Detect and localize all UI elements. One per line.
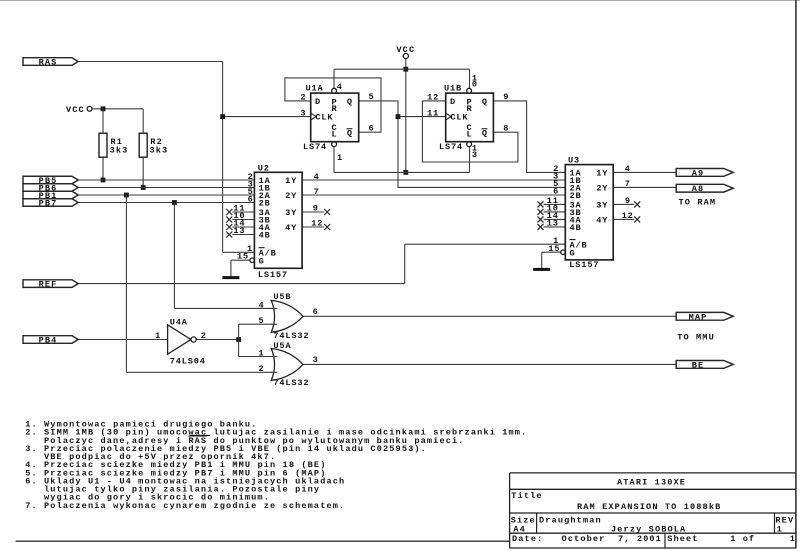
svg-text:1: 1 — [790, 534, 796, 544]
svg-text:A9: A9 — [692, 168, 705, 178]
svg-text:RAM EXPANSION TO 1088kB: RAM EXPANSION TO 1088kB — [577, 502, 721, 512]
svg-text:7: 7 — [625, 179, 631, 189]
svg-text:74LS04: 74LS04 — [170, 357, 206, 367]
svg-text:3: 3 — [313, 355, 319, 365]
svg-text:TO MMU: TO MMU — [677, 333, 715, 343]
svg-text:2: 2 — [258, 364, 264, 374]
svg-text:D: D — [315, 97, 321, 107]
svg-text:PB7: PB7 — [39, 198, 58, 208]
svg-text:A4: A4 — [513, 524, 526, 534]
svg-text:2Y: 2Y — [285, 191, 297, 201]
svg-text:74LS32: 74LS32 — [273, 378, 309, 388]
svg-text:CLK: CLK — [450, 113, 468, 123]
svg-text:11: 11 — [427, 108, 439, 118]
svg-text:9: 9 — [503, 92, 509, 102]
svg-text:3k3: 3k3 — [150, 146, 169, 156]
svg-text:U4A: U4A — [170, 317, 188, 327]
svg-text:U1B: U1B — [444, 83, 462, 93]
svg-text:2Y: 2Y — [596, 184, 608, 194]
svg-text:1: 1 — [155, 331, 161, 341]
svg-text:ATARI 130XE: ATARI 130XE — [617, 478, 686, 488]
svg-text:October 7, 2001: October 7, 2001 — [562, 534, 662, 544]
svg-text:13: 13 — [233, 226, 245, 236]
svg-text:U3: U3 — [568, 156, 580, 166]
svg-text:9: 9 — [313, 204, 319, 214]
svg-text:Q: Q — [347, 129, 353, 139]
svg-text:3Y: 3Y — [596, 201, 608, 211]
svg-text:G: G — [259, 256, 265, 266]
svg-text:2: 2 — [201, 331, 207, 341]
svg-text:VCC: VCC — [66, 105, 85, 115]
svg-text:A8: A8 — [692, 184, 705, 194]
svg-text:TO RAM: TO RAM — [679, 197, 717, 207]
svg-text:5: 5 — [258, 316, 264, 326]
svg-text:2B: 2B — [259, 199, 271, 209]
svg-text:3: 3 — [300, 108, 306, 118]
svg-text:4B: 4B — [259, 231, 271, 241]
svg-text:U1A: U1A — [306, 83, 324, 93]
svg-text:12: 12 — [427, 93, 439, 103]
svg-text:3Y: 3Y — [285, 208, 297, 218]
svg-text:12: 12 — [311, 219, 323, 229]
svg-text:U5B: U5B — [273, 292, 291, 302]
svg-text:Draughtman: Draughtman — [539, 515, 602, 525]
svg-text:15: 15 — [237, 252, 249, 262]
svg-text:1 of: 1 of — [730, 534, 755, 544]
svg-text:CLK: CLK — [315, 113, 333, 123]
svg-text:LS157: LS157 — [569, 260, 599, 270]
svg-text:RAS: RAS — [39, 57, 58, 67]
svg-text:4B: 4B — [570, 223, 582, 233]
svg-text:MAP: MAP — [689, 312, 708, 322]
svg-text:1: 1 — [777, 524, 783, 534]
svg-text:4Y: 4Y — [596, 216, 608, 226]
svg-text:D: D — [450, 97, 456, 107]
svg-text:LS74: LS74 — [439, 142, 463, 152]
svg-text:L: L — [467, 130, 473, 140]
svg-text:Q: Q — [482, 97, 488, 107]
svg-text:LS157: LS157 — [258, 270, 288, 280]
svg-text:1Y: 1Y — [596, 169, 608, 179]
svg-text:U5A: U5A — [273, 341, 291, 351]
svg-text:8: 8 — [503, 124, 509, 134]
svg-text:0: 0 — [472, 79, 478, 89]
svg-text:PB4: PB4 — [39, 335, 58, 345]
svg-text:Title: Title — [511, 491, 542, 501]
svg-text:5: 5 — [369, 92, 375, 102]
svg-text:1Y: 1Y — [285, 176, 297, 186]
svg-text:LS74: LS74 — [303, 142, 327, 152]
svg-text:4Y: 4Y — [285, 223, 297, 233]
svg-text:4: 4 — [314, 172, 320, 182]
svg-text:R: R — [332, 104, 338, 114]
svg-text:4: 4 — [625, 164, 631, 174]
svg-text:U2: U2 — [258, 163, 270, 173]
svg-text:Jerzy SOBOLA: Jerzy SOBOLA — [611, 524, 686, 534]
svg-text:15: 15 — [548, 244, 560, 254]
svg-text:4: 4 — [337, 82, 343, 92]
svg-text:R: R — [467, 104, 473, 114]
svg-text:7: 7 — [314, 187, 320, 197]
svg-text:4: 4 — [258, 300, 264, 310]
svg-text:2B: 2B — [570, 191, 582, 201]
svg-text:Q: Q — [347, 97, 353, 107]
svg-text:13: 13 — [547, 219, 559, 229]
svg-text:G: G — [570, 248, 576, 258]
svg-text:Q: Q — [482, 129, 488, 139]
svg-text:3k3: 3k3 — [110, 146, 129, 156]
svg-text:9: 9 — [625, 196, 631, 206]
svg-text:Date:: Date: — [512, 534, 543, 544]
svg-text:6: 6 — [313, 307, 319, 317]
svg-text:BE: BE — [692, 360, 705, 370]
svg-text:2: 2 — [300, 93, 306, 103]
svg-text:REF: REF — [39, 280, 58, 290]
svg-text:7. Polaczenia wykonac cynarem: 7. Polaczenia wykonac cynarem zgodnie ze… — [25, 501, 345, 511]
svg-text:74LS32: 74LS32 — [273, 331, 309, 341]
svg-text:Sheet: Sheet — [667, 534, 698, 544]
svg-text:6: 6 — [248, 194, 254, 204]
svg-text:12: 12 — [622, 211, 634, 221]
svg-text:VCC: VCC — [396, 45, 415, 55]
svg-text:6: 6 — [369, 124, 375, 134]
svg-text:3: 3 — [472, 150, 478, 160]
svg-text:1: 1 — [337, 153, 343, 163]
svg-text:1: 1 — [258, 348, 264, 358]
svg-text:L: L — [332, 130, 338, 140]
